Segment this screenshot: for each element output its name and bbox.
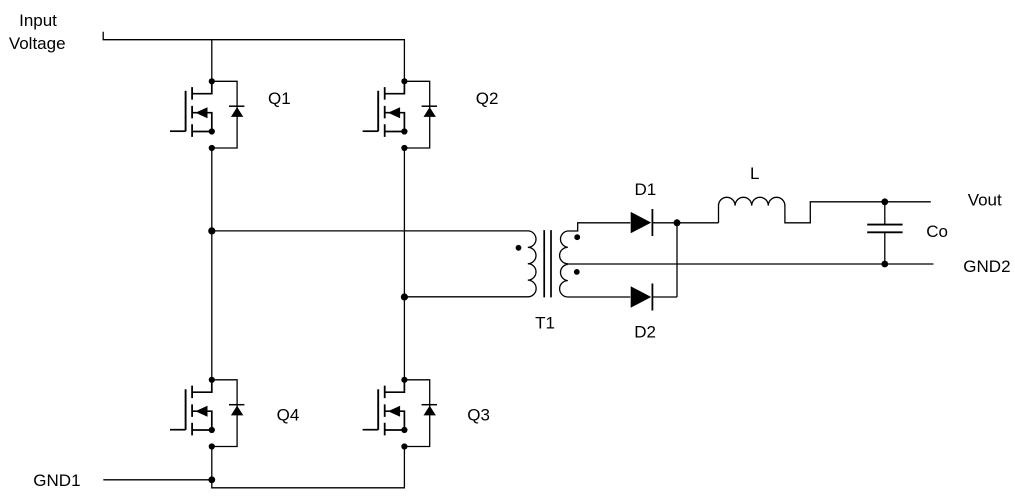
svg-text:T1: T1 <box>535 313 555 332</box>
svg-text:L: L <box>750 164 759 183</box>
svg-text:Vout: Vout <box>968 191 1002 210</box>
svg-text:GND1: GND1 <box>33 471 80 490</box>
svg-text:Q1: Q1 <box>268 89 291 108</box>
svg-text:Q2: Q2 <box>476 89 499 108</box>
svg-text:GND2: GND2 <box>963 257 1010 276</box>
svg-text:D1: D1 <box>635 180 657 199</box>
svg-text:Input: Input <box>19 11 57 30</box>
svg-text:D2: D2 <box>634 322 656 341</box>
svg-text:Q4: Q4 <box>277 405 300 424</box>
svg-text:Voltage: Voltage <box>9 34 66 53</box>
svg-text:Q3: Q3 <box>467 405 490 424</box>
svg-text:Co: Co <box>926 222 948 241</box>
